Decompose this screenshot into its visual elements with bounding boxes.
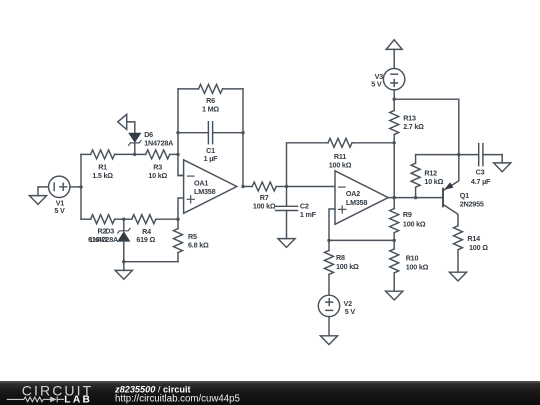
label R11 (329, 152, 352, 170)
op-amp OA1 (178, 160, 237, 219)
capacitor C3 (479, 144, 503, 166)
svg-text:LM358: LM358 (346, 198, 368, 207)
label C3 (471, 168, 491, 186)
label R2 and D3 overlapped (88, 227, 118, 244)
node V1-R1 junction (79, 185, 82, 188)
label R3 (148, 163, 167, 180)
node rail-C1 right (241, 131, 244, 134)
resistor R1 (81, 150, 135, 159)
resistor R12 (411, 155, 420, 198)
resistor R9 (390, 198, 399, 241)
label C2 (300, 202, 317, 220)
label V1 value (54, 198, 65, 215)
svg-text:100 kΩ: 100 kΩ (253, 202, 276, 211)
label C1 (204, 146, 219, 163)
node plus-input junction (176, 218, 179, 221)
svg-text:2.7 kΩ: 2.7 kΩ (403, 122, 424, 131)
ground (V2) (320, 317, 337, 345)
svg-text:100 Ω: 100 Ω (469, 243, 488, 252)
label R4 (136, 227, 155, 244)
wire V1 to node (70, 186, 81, 188)
label R14 (467, 234, 488, 252)
label R12 (424, 168, 443, 186)
resistor R14 (454, 226, 463, 273)
ground (C2) (278, 239, 295, 248)
footer bar (0, 381, 540, 405)
svg-text:5 V: 5 V (345, 307, 356, 316)
label R13 (403, 113, 424, 130)
wire OA2 output up (393, 143, 395, 198)
label R6 (202, 96, 219, 113)
resistor R4 (124, 215, 178, 224)
svg-text:5 V: 5 V (371, 80, 382, 89)
svg-text:6.8 kΩ: 6.8 kΩ (188, 241, 209, 250)
label D6 (144, 130, 173, 148)
svg-text:R9: R9 (403, 210, 412, 219)
svg-text:http://circuitlab.com/cuw44p5: http://circuitlab.com/cuw44p5 (115, 393, 240, 404)
svg-text:R8: R8 (336, 253, 345, 262)
node OA1 output (241, 185, 244, 188)
svg-text:100 kΩ: 100 kΩ (329, 160, 352, 169)
diode D3 (zener, cathode up) (118, 219, 130, 262)
svg-text:100 kΩ: 100 kΩ (336, 262, 359, 271)
svg-text:1N4728A: 1N4728A (144, 139, 173, 148)
label R1 (92, 163, 113, 180)
node rail-C1 (176, 131, 179, 134)
node OA2 output (393, 196, 396, 199)
wire to OA2 minus (287, 186, 336, 188)
label R10 (406, 254, 429, 272)
wire V3 to emitter rail (394, 99, 459, 154)
logo wire-resistor-diode (7, 397, 64, 403)
node R9-R10 junction (393, 239, 396, 242)
node R2-R4-D3 junction (122, 218, 125, 221)
diode D6 (zener) (129, 133, 141, 154)
svg-text:C3: C3 (476, 168, 485, 177)
svg-text:1 MΩ: 1 MΩ (202, 105, 219, 114)
node R12-base junction (414, 196, 417, 199)
wire OA2 output row (388, 197, 443, 199)
wire left vertical rail (80, 154, 82, 219)
node emitter rail junction (457, 153, 460, 156)
voltage source V2 (318, 295, 339, 316)
capacitor C1 (178, 122, 243, 144)
resistor R3 (135, 150, 178, 159)
wire C3 row (416, 154, 479, 156)
footer title text (114, 384, 191, 394)
power flag (V3) (386, 40, 402, 69)
ground (C3) (494, 155, 511, 172)
ground (R10) (386, 291, 403, 300)
svg-text:100 kΩ: 100 kΩ (403, 219, 426, 228)
svg-text:1 µF: 1 µF (204, 154, 219, 163)
logo CIRCUIT (22, 383, 93, 399)
wire OA2 plus bridge (329, 239, 394, 241)
svg-text:10 kΩ: 10 kΩ (424, 177, 443, 186)
ground (V1) (29, 187, 48, 205)
node R7-C2 junction (285, 185, 288, 188)
label OA1 (194, 179, 216, 197)
svg-text:R10: R10 (406, 254, 419, 263)
ground (R14) (449, 272, 466, 281)
resistor R10 (390, 240, 399, 291)
label R7 (253, 193, 276, 211)
resistor R5 (174, 219, 183, 262)
svg-text:619 Ω: 619 Ω (136, 235, 155, 244)
transistor Q1 (443, 155, 459, 226)
svg-text:1N4728A: 1N4728A (89, 235, 118, 244)
power flag (D6 anode) (118, 114, 135, 133)
label Q1 (460, 191, 484, 209)
voltage source V3 (383, 69, 404, 90)
logo LAB (64, 395, 92, 405)
svg-text:2N2955: 2N2955 (460, 200, 484, 209)
resistor R11 (328, 138, 394, 147)
wire bottom return (124, 261, 178, 263)
resistor R2 (81, 215, 124, 224)
resistor R6 (178, 84, 243, 93)
resistor R7 (243, 182, 287, 191)
svg-text:1.5 kΩ: 1.5 kΩ (92, 171, 113, 180)
resistor R13 (390, 99, 399, 143)
svg-text:LM358: LM358 (194, 187, 216, 196)
node D3-ground junction (122, 260, 125, 263)
label R5 (188, 232, 209, 250)
node R11-R13 junction (393, 141, 396, 144)
node V3 junction (393, 98, 396, 101)
op-amp OA2 (329, 171, 388, 241)
label V3 (371, 72, 383, 89)
wire feedback left rail (178, 89, 184, 176)
label R8 (336, 253, 359, 271)
wire feedback right rail (242, 89, 244, 187)
svg-text:R14: R14 (467, 234, 480, 243)
label OA2 (346, 189, 368, 207)
label R9 (403, 210, 426, 229)
svg-text:LAB: LAB (64, 395, 92, 405)
voltage source V1 (49, 176, 70, 197)
wire V3 down (393, 90, 395, 99)
svg-text:10 kΩ: 10 kΩ (148, 171, 167, 180)
footer url text (115, 393, 240, 404)
node rail-R3 (176, 153, 179, 156)
resistor R8 (325, 240, 334, 295)
svg-text:100 kΩ: 100 kΩ (406, 263, 429, 272)
svg-text:5 V: 5 V (54, 206, 65, 215)
wire up-rail to R11 (287, 143, 329, 187)
capacitor C2 (276, 187, 298, 239)
node OA2 plus junction (327, 239, 330, 242)
label V2 (344, 299, 356, 316)
ground (D3) (115, 262, 132, 280)
node R1-R3-D6 junction (133, 153, 136, 156)
svg-text:4.7 µF: 4.7 µF (471, 177, 491, 186)
svg-text:1 mF: 1 mF (300, 210, 317, 219)
